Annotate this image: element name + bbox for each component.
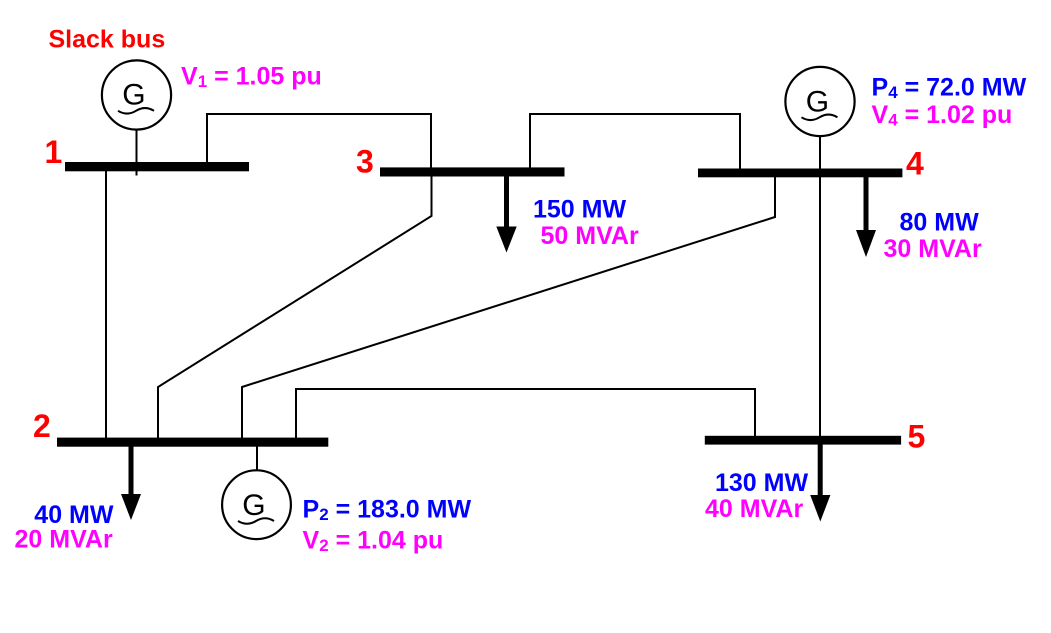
bus 4 bar [698,169,902,178]
svg-text:50 MVAr: 50 MVAr [541,222,639,250]
bus 1 bar [65,162,249,171]
svg-text:40 MVAr: 40 MVAr [705,495,803,523]
svg-text:20 MVAr: 20 MVAr [15,526,113,554]
generator G1 stem [136,130,138,176]
svg-text:G: G [242,489,265,522]
load arrow bus 2 [121,446,141,520]
svg-text:2: 2 [33,408,51,444]
svg-text:P2 = 183.0 MW: P2 = 183.0 MW [303,496,472,525]
svg-text:130 MW: 130 MW [715,469,808,497]
generator G2 stem [256,446,258,471]
generator G2 [222,470,291,539]
load arrow bus 4 [856,177,876,257]
bus 2 bar [57,438,328,447]
svg-text:30 MVAr: 30 MVAr [884,235,982,263]
svg-text:G: G [122,79,145,112]
bus 3 bar [380,167,565,176]
svg-text:5: 5 [908,418,926,454]
load arrow bus 3 [496,176,516,253]
generator G4 stem [819,136,821,169]
bus 5 bar [705,436,901,445]
svg-text:Slack bus: Slack bus [49,25,166,53]
svg-text:4: 4 [906,145,924,181]
wire line 2-4 [242,177,775,438]
svg-text:1: 1 [45,134,63,170]
svg-text:150 MW: 150 MW [533,195,626,223]
wire line 2-3 [158,176,432,438]
load arrow bus 5 [810,444,830,522]
wire line 1-2 [105,171,107,438]
wire line 1-3 [207,114,431,168]
svg-text:3: 3 [356,143,374,179]
generator G1 [102,60,171,129]
svg-text:G: G [806,85,829,118]
wire line 3-4 [530,114,740,169]
wire line 2-5 [296,389,755,438]
generator G4 [785,67,854,136]
svg-text:80 MW: 80 MW [900,209,980,237]
wire line 4-5 [819,177,821,436]
